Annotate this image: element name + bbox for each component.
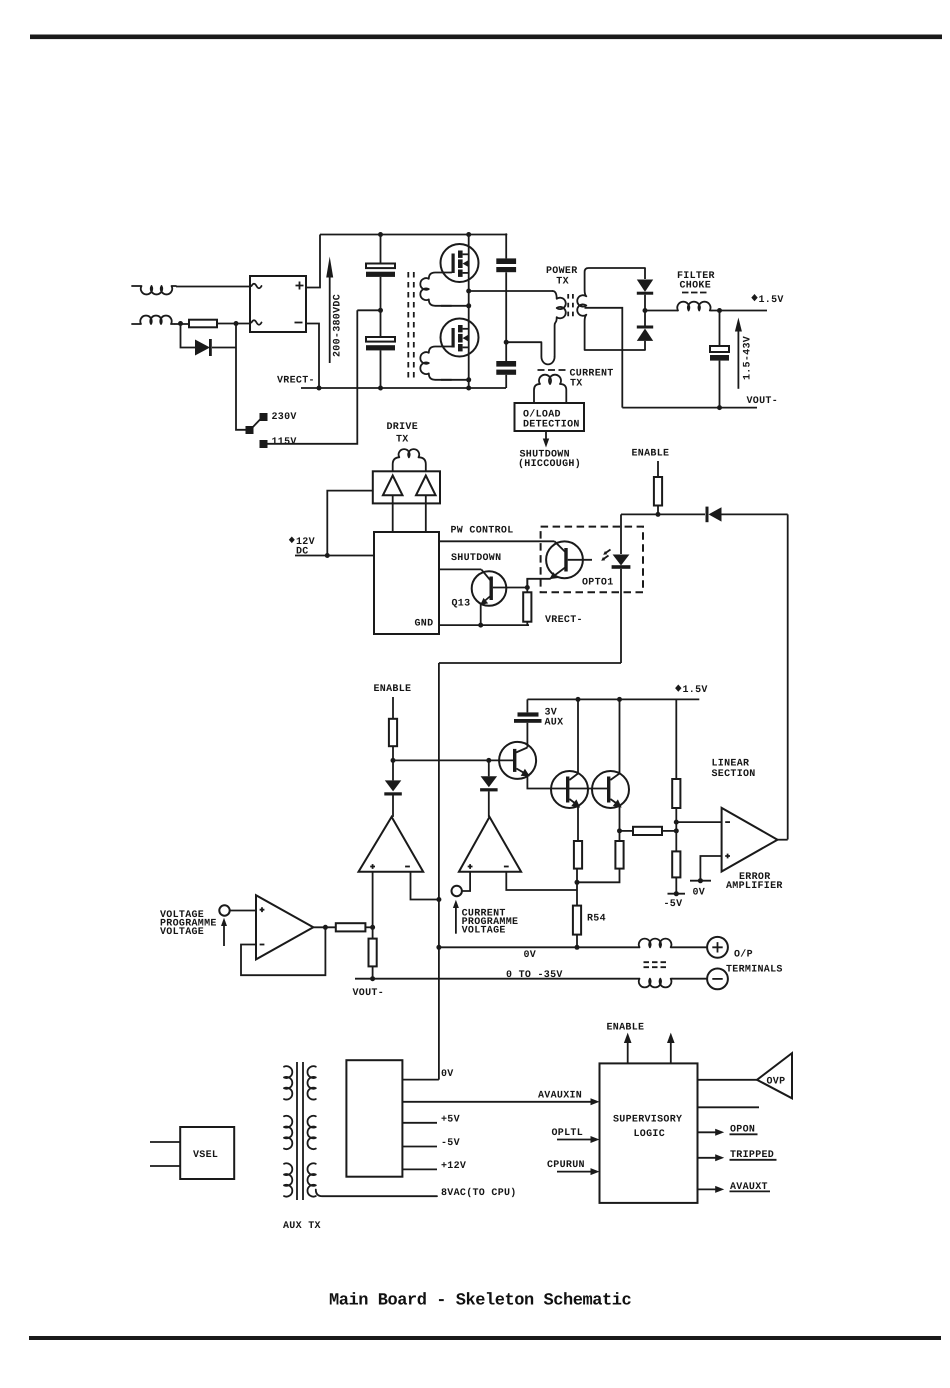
- current TX winding: [534, 375, 566, 403]
- feedback line from error amplifier: [787, 514, 789, 839]
- error amplifier triangle: [722, 808, 778, 872]
- Q1 source stub: [463, 272, 469, 274]
- voltage follower op-amp: [256, 895, 313, 959]
- HV top rail: [320, 234, 506, 236]
- error amp output wire: [778, 839, 788, 841]
- resistor R-vdiv (vertical): [369, 939, 377, 967]
- wire opto emitter to node: [527, 579, 550, 588]
- wire +12V DC to control IC: [295, 555, 374, 557]
- main TX primary winding P1: [420, 273, 451, 306]
- Q2 channel bars: [458, 325, 463, 332]
- current TX core dashes: [538, 369, 566, 371]
- resistor R-q2 (vertical): [574, 841, 582, 869]
- node junction on 0V sense: [436, 897, 441, 902]
- amp1 + input lead: [372, 872, 374, 928]
- output capacitor C5: [719, 311, 721, 347]
- driver transistor Q3L circle: [592, 771, 629, 808]
- 0V sense vertical line: [438, 663, 440, 1080]
- node junction P1 bottom: [466, 303, 471, 308]
- node junction output cap: [717, 308, 722, 313]
- voltage programme input circle: [219, 905, 229, 915]
- resistor R-linear top (vertical): [675, 699, 677, 779]
- switch blade to 230V: [251, 419, 261, 430]
- POWER TX core dashes left: [567, 294, 569, 320]
- svg-text:ENABLE: ENABLE: [607, 1023, 645, 1034]
- wire +12V up to buffer box: [327, 491, 373, 556]
- svg-text:VRECT-: VRECT-: [277, 376, 315, 387]
- follower - mark: [260, 944, 265, 946]
- bridge rectifier BR1: [250, 276, 306, 332]
- -35V output rail: [355, 978, 640, 980]
- svg-text:O/P: O/P: [734, 949, 753, 961]
- Q2L collector wire to +1.5V: [577, 699, 579, 773]
- AVAUXT wire with arrow: [698, 1188, 719, 1190]
- DRIVE TX winding: [393, 449, 426, 471]
- main TX primary winding P2: [420, 347, 451, 380]
- wire circle to follower: [230, 910, 256, 912]
- wire P2 bottom lead to node: [441, 379, 469, 381]
- svg-text:115V: 115V: [272, 437, 297, 448]
- svg-text:OPTO1: OPTO1: [582, 578, 614, 589]
- svg-text:8VAC(TO CPU): 8VAC(TO CPU): [441, 1187, 517, 1199]
- node junction right of diode: [234, 321, 239, 326]
- AUX TX left winding 2: [284, 1116, 292, 1149]
- bottom border rule: [29, 1336, 941, 1340]
- wire PW CONTROL to opto collector: [439, 540, 555, 542]
- AUX TX core lines: [297, 1062, 303, 1200]
- svg-text:+12V: +12V: [441, 1161, 466, 1172]
- OVP wire: [698, 1079, 758, 1081]
- resistor R-enable2: [389, 719, 397, 746]
- node junction 0V sense on 0V rail: [436, 945, 441, 950]
- node junction at diode branch left: [178, 321, 183, 326]
- VRECT- bottom rail: [301, 387, 506, 389]
- Q3L collector diagonal: [610, 774, 619, 781]
- GND / VRECT- rail: [439, 624, 529, 626]
- resistor R-opto (vertical): [526, 579, 528, 593]
- node junction R54 on 0V rail: [575, 945, 580, 950]
- 3V AUX battery: [518, 712, 539, 716]
- node junction bridge minus on rail: [317, 386, 322, 391]
- POWER TX core dashes right: [572, 294, 574, 320]
- svg-text:GND: GND: [415, 619, 434, 630]
- amp2 - input lead to R54 node: [506, 872, 577, 890]
- Q13 emitter diagonal with arrow: [484, 596, 491, 602]
- Q1 body-diode arrow: [465, 263, 469, 265]
- svg-text:VSEL: VSEL: [193, 1150, 218, 1161]
- follower + mark: [260, 907, 265, 912]
- svg-text:VOUT-: VOUT-: [353, 988, 385, 999]
- secondary centre tap wire: [585, 308, 623, 408]
- Q13 base bar: [490, 577, 493, 601]
- Q13 emitter wire down to GND rail: [480, 603, 482, 626]
- Q3L collector wire to +1.5V: [619, 699, 621, 773]
- wire R54 to 0V rail: [576, 935, 578, 948]
- node junctions on +1.5V rail: [576, 697, 581, 702]
- control IC box U1: [374, 532, 439, 634]
- main TX core dashed line left: [407, 272, 409, 379]
- 0V terminal (error amp): [698, 878, 703, 883]
- svg-text:DETECTION: DETECTION: [523, 419, 580, 430]
- opto collector diagonal: [555, 541, 566, 552]
- node junction diode D4 top: [486, 758, 491, 763]
- svg-text:0V: 0V: [524, 950, 537, 961]
- wire SHUTDOWN to Q13: [439, 568, 481, 570]
- node junction enable2: [391, 758, 396, 763]
- diode D3 (above voltage amp): [392, 760, 394, 780]
- wire diode to feedback line: [722, 513, 788, 515]
- svg-text:CPURUN: CPURUN: [547, 1160, 585, 1171]
- arrow 1.5-43V: [737, 330, 739, 389]
- svg-text:SHUTDOWN: SHUTDOWN: [451, 553, 501, 564]
- filter choke winding: [677, 302, 711, 311]
- svg-text:1.5V: 1.5V: [683, 685, 708, 696]
- voltage programme arrow: [223, 924, 225, 946]
- Q1L base bar: [513, 749, 516, 772]
- svg-text:AUX TX: AUX TX: [283, 1221, 321, 1232]
- svg-text:AMPLIFIER: AMPLIFIER: [726, 881, 783, 892]
- node junction P2 bottom: [466, 377, 471, 382]
- svg-text:200-380VDC: 200-380VDC: [333, 294, 344, 357]
- svg-text:VOLTAGE: VOLTAGE: [160, 927, 204, 938]
- svg-text:SUPERVISORY: SUPERVISORY: [613, 1115, 682, 1126]
- amp1 - mark: [405, 866, 410, 868]
- AUX TX left winding 1: [284, 1066, 292, 1099]
- aux supply box: [346, 1060, 402, 1177]
- svg-text:(HICCOUGH): (HICCOUGH): [518, 458, 581, 470]
- svg-text:AVAUXIN: AVAUXIN: [538, 1091, 582, 1102]
- wires resistor bottoms to R54 node: [577, 869, 620, 906]
- wire choke to +1.5V: [712, 310, 767, 312]
- error amp - mark: [725, 821, 730, 823]
- Q2 gate bar: [452, 328, 455, 348]
- svg-text:VOUT-: VOUT-: [747, 396, 779, 407]
- node junction on VOUT- rail: [370, 976, 375, 981]
- node junction C3 on top rail (rail end corner): [505, 233, 507, 235]
- voltage error amp (big triangle): [359, 817, 424, 872]
- svg-text:VRECT-: VRECT-: [545, 615, 583, 626]
- wire LED cathode to 0V sense line: [439, 662, 621, 664]
- error amp - input wire: [676, 821, 721, 823]
- Q1L emitter diagonal with arrow: [516, 769, 527, 775]
- unlabeled output wire: [698, 1106, 760, 1108]
- +5V output wire: [402, 1122, 437, 1124]
- OVP triangle: [757, 1053, 792, 1098]
- node junction Q1 on rail: [466, 232, 471, 237]
- current error amp (big triangle): [459, 817, 521, 872]
- top border rule: [30, 35, 942, 40]
- opto LED light arrows: [604, 550, 611, 560]
- node junctions error amp input: [675, 808, 677, 851]
- svg-text:VOLTAGE: VOLTAGE: [462, 926, 506, 937]
- Q2L collector diagonal: [569, 774, 578, 781]
- bridge - mark: [295, 322, 303, 324]
- Q2 source stub: [463, 346, 469, 348]
- enable arrow 2: [670, 1041, 672, 1063]
- wire junction up to line and down to switch: [236, 324, 246, 430]
- VSEL stub wires: [150, 1142, 180, 1166]
- capacitor C2 (doubler bottom): [366, 337, 395, 342]
- amp1 - input lead to 0V sense: [411, 872, 439, 900]
- Q13 right lead to resistor node: [493, 587, 527, 589]
- resistor R-q3 (vertical): [615, 841, 623, 869]
- wire resistor to bridge: [217, 323, 250, 325]
- enable arrow 1: [627, 1041, 629, 1063]
- 0V output wire: [402, 1079, 439, 1081]
- wire bridge + up to HV rail: [306, 235, 320, 288]
- Q2 body-diode arrow: [465, 337, 469, 339]
- main TX core dashed line right: [413, 272, 415, 379]
- node junction divider: [370, 925, 375, 930]
- buffer triangle B: [416, 476, 436, 496]
- diode D-inrush (SCR-style bypass): [195, 340, 210, 356]
- node junction follower output: [323, 925, 328, 930]
- resistor R-inrush: [189, 320, 217, 328]
- Q3L emitter wire down: [619, 806, 621, 842]
- +1.5V rail (linear): [527, 698, 699, 700]
- current programme input circle: [452, 886, 462, 896]
- svg-text:AUX: AUX: [545, 718, 564, 729]
- wire L1 to bridge: [176, 287, 250, 288]
- wire resistor to amp1 input: [365, 926, 372, 928]
- diode D-fb (points left): [706, 507, 709, 523]
- Q2L emitter diagonal with arrow: [569, 799, 578, 806]
- 8VAC wire from winding: [316, 1190, 437, 1197]
- filter choke core dashes: [682, 292, 707, 294]
- resistor R54: [573, 906, 581, 935]
- wire L2 to resistor: [175, 323, 190, 326]
- switch pole square: [246, 426, 254, 434]
- AUX TX right winding 3: [307, 1163, 315, 1196]
- AVAUXIN wire: [402, 1101, 593, 1103]
- wire bridge - down to VRECT- rail: [306, 324, 319, 389]
- DRIVE TX buffer box: [373, 471, 440, 503]
- O/P - terminal: [707, 969, 728, 990]
- node junction opto emitter / Q13: [525, 585, 530, 590]
- transistor Q13 circle: [472, 571, 507, 606]
- supervisory logic box: [600, 1063, 698, 1203]
- svg-text:0V: 0V: [441, 1069, 454, 1080]
- arrow 200-380VDC: [329, 276, 331, 363]
- node junction +12V branch: [325, 553, 330, 558]
- AUX TX right winding 2: [307, 1116, 315, 1149]
- AUX TX left winding 3: [284, 1163, 292, 1196]
- svg-text:Main Board - Skeleton Schemati: Main Board - Skeleton Schematic: [329, 1292, 632, 1311]
- follower feedback loop: [241, 927, 325, 975]
- svg-text:DRIVE: DRIVE: [387, 422, 419, 433]
- VOUT- rail: [622, 407, 757, 409]
- inductor L1 (line input choke, top): [132, 286, 176, 294]
- node junction C1 on top rail: [378, 232, 383, 237]
- rectifier diode D1 (top): [644, 268, 646, 279]
- svg-text:LOGIC: LOGIC: [634, 1129, 666, 1140]
- -5V output wire: [402, 1146, 437, 1148]
- pass transistor Q1L circle: [499, 742, 536, 779]
- OPON wire with arrow: [698, 1131, 719, 1133]
- error amp + mark: [725, 854, 730, 859]
- AUX TX right winding 1: [307, 1066, 315, 1099]
- node junction cap midpoint to TX primary return: [504, 340, 509, 345]
- OPTO1 dashed box: [541, 527, 643, 593]
- amp2 - mark: [504, 866, 509, 868]
- +12V output wire: [402, 1168, 437, 1170]
- node junction enable/diode line: [656, 512, 661, 517]
- wire diode to right junction: [212, 347, 236, 349]
- O/P + terminal: [707, 937, 728, 958]
- svg-text:Q13: Q13: [452, 599, 471, 610]
- Q3L emitter diagonal with arrow: [610, 799, 619, 806]
- node junction Q13 emitter on GND rail: [478, 623, 483, 628]
- CPURUN wire with arrow: [557, 1171, 594, 1173]
- Q2L emitter wire to resistor: [577, 806, 579, 842]
- Q1L collector diagonal: [516, 748, 527, 753]
- output choke E2: [639, 979, 672, 988]
- opto base bar: [564, 548, 567, 572]
- opto base stub: [568, 559, 592, 561]
- driver transistor Q2L circle: [551, 771, 588, 808]
- svg-text:R54: R54: [587, 914, 606, 925]
- node junction Q2 on bottom rail: [466, 386, 471, 391]
- amp2 + input lead: [462, 872, 470, 891]
- inductor L2 (line input choke, bottom): [132, 316, 175, 324]
- svg-text:PW CONTROL: PW CONTROL: [451, 526, 514, 537]
- wire E2 to - terminal: [672, 978, 707, 980]
- MOSFET Q1 (upper) circle: [441, 244, 479, 282]
- O/LOAD DETECTION box: [515, 403, 585, 431]
- output choke E1: [639, 939, 672, 948]
- error amp + input wire to 0V: [700, 856, 721, 881]
- node junction R54 top: [575, 880, 580, 885]
- wire P1 bottom lead to node: [441, 305, 469, 307]
- VSEL box: [180, 1127, 234, 1179]
- wire 115V to doubler tap: [268, 310, 358, 444]
- shutdown output arrow: [545, 431, 547, 441]
- bridge + mark: [296, 282, 304, 290]
- capacitor C4 (right bottom): [496, 361, 516, 367]
- svg-text:+5V: +5V: [441, 1115, 460, 1126]
- label +1.5V (linear): [675, 685, 681, 692]
- svg-text:ENABLE: ENABLE: [374, 684, 412, 695]
- Q13 collector diagonal (to SHUTDOWN): [481, 569, 491, 581]
- buffer triangle A: [383, 476, 403, 496]
- wire down to diode: [181, 324, 196, 348]
- Q1L emitter wire to driver line: [527, 775, 608, 789]
- wire enable node to Q1 base: [393, 759, 513, 761]
- amp1 + mark: [370, 864, 375, 869]
- MOSFET Q2 (lower) circle: [441, 319, 479, 357]
- resistor R-linear bottom (vertical): [672, 851, 680, 877]
- Q1 channel bars: [458, 251, 463, 258]
- bridge ~ symbol bottom: [252, 320, 262, 325]
- svg-text:0V: 0V: [693, 888, 706, 899]
- wire cap midpoint to 115V tap: [357, 309, 380, 311]
- svg-text:-5V: -5V: [441, 1138, 460, 1149]
- svg-text:TX: TX: [396, 435, 409, 446]
- svg-text:ENABLE: ENABLE: [632, 449, 670, 460]
- current programme arrow: [455, 906, 457, 934]
- switch 115V contact square: [260, 440, 268, 448]
- bridge ~ symbol top: [252, 284, 262, 289]
- node junction C5 on VOUT- rail: [717, 405, 722, 410]
- node junction C1/C2 midpoint: [378, 308, 383, 313]
- node junction Q3L emitter / sense resistor: [617, 828, 622, 833]
- svg-text:1.5V: 1.5V: [759, 295, 784, 306]
- follower output wire: [313, 926, 336, 928]
- svg-text:230V: 230V: [272, 412, 297, 423]
- opto transistor circle: [546, 541, 583, 578]
- ENABLE lead: [392, 697, 394, 719]
- label +1.5V: [751, 294, 757, 301]
- opto LED (diode): [620, 514, 622, 554]
- ENABLE lead: [657, 461, 659, 477]
- label +12V DC: [289, 537, 295, 544]
- 0V output rail: [439, 946, 640, 948]
- node junction C2 on rail: [378, 386, 383, 391]
- Q3L base bar: [607, 777, 610, 803]
- half-bridge vertical wire (Q1 drain to Q2 source): [468, 235, 470, 389]
- POWER TX secondary winding: [577, 268, 645, 350]
- wire half-bridge node to POWER TX primary: [469, 290, 553, 292]
- svg-text:OPLTL: OPLTL: [552, 1128, 584, 1139]
- svg-text:SECTION: SECTION: [712, 769, 756, 780]
- svg-text:POWER: POWER: [546, 266, 578, 277]
- opto emitter diagonal with arrow: [550, 567, 566, 579]
- POWER TX primary winding: [553, 291, 566, 357]
- svg-text:CHOKE: CHOKE: [680, 281, 712, 292]
- svg-text:TX: TX: [556, 277, 569, 288]
- svg-text:TERMINALS: TERMINALS: [726, 965, 783, 976]
- amp2 + mark: [468, 864, 473, 869]
- node junction rectifier output: [643, 308, 648, 313]
- Q2 drain stub: [463, 328, 469, 330]
- POWER TX primary return U-loop through current TX: [506, 342, 554, 364]
- svg-text:1.5-43V: 1.5-43V: [743, 336, 754, 380]
- OPLTL wire with arrow: [557, 1139, 594, 1141]
- resistor R-vset (horizontal): [336, 923, 366, 931]
- resistor R-err (horizontal): [620, 830, 634, 832]
- diode D4 (above current amp): [488, 760, 490, 776]
- capacitor C1 (doubler top): [380, 235, 382, 264]
- Q1 gate bar: [452, 254, 455, 274]
- Q1 drain stub: [463, 253, 469, 255]
- wire E1 to + terminal: [672, 946, 707, 948]
- capacitor C3 (right top): [505, 235, 507, 259]
- Q2L base bar: [566, 777, 569, 803]
- wire rectifier node to choke: [645, 310, 678, 312]
- node junction half-bridge midpoint: [466, 289, 471, 294]
- resistor R-enable1 (vertical): [654, 477, 662, 506]
- TRIPPED wire with arrow: [698, 1157, 719, 1159]
- switch 230V contact square: [260, 413, 268, 421]
- svg-text:OVP: OVP: [767, 1077, 786, 1088]
- svg-text:TX: TX: [570, 379, 583, 390]
- rectifier diode D2 (bottom): [637, 326, 653, 329]
- wire opto anode line: [621, 513, 705, 515]
- -5V terminal: [674, 891, 679, 896]
- svg-text:-5V: -5V: [664, 899, 683, 910]
- output choke core dashes: [644, 962, 667, 967]
- wires buffers to control IC: [393, 495, 426, 532]
